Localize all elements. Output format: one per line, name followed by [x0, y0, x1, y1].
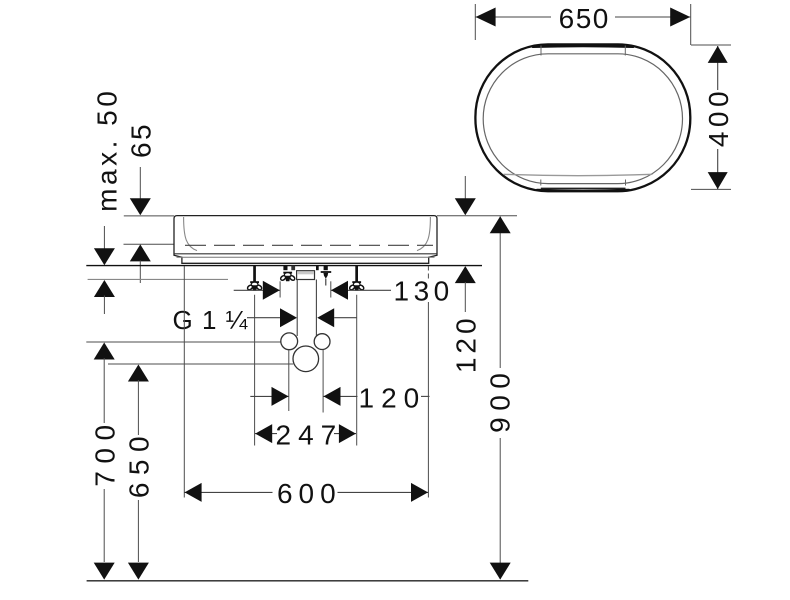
basin rim extension line right [437, 215, 517, 217]
left supply connection circle [281, 333, 298, 350]
right fixing bolt rod [355, 266, 358, 282]
basin inner bowl right corner [417, 217, 430, 251]
svg-text:400: 400 [703, 87, 734, 147]
basin bowl bottom edge line [174, 253, 437, 255]
basin inner bowl left corner [184, 217, 197, 251]
svg-text:247: 247 [276, 420, 344, 451]
rim bottom flat thick edge [537, 189, 629, 192]
deck bottom straight edge [541, 187, 626, 189]
svg-text:700: 700 [89, 417, 120, 486]
wall mounting line [86, 265, 482, 267]
drain mounting tab 2 [291, 266, 295, 271]
drain screw T-bar [321, 271, 332, 273]
dimension G 1 1/4 (drain thread) [172, 305, 357, 335]
supply centerline left [288, 350, 290, 411]
drain mounting tab 4 [324, 266, 328, 271]
oval washbasin inner rim line [483, 54, 682, 184]
left fixing bolt wing nut [247, 281, 263, 291]
svg-text:120: 120 [359, 382, 427, 413]
drain screw pin [325, 279, 327, 286]
drain pipe right edge [315, 280, 317, 337]
dimension 400 (plan view depth) [691, 45, 734, 189]
svg-text:600: 600 [277, 478, 342, 509]
svg-text:650: 650 [124, 429, 155, 498]
dimension 120 (supply spacing) [250, 382, 429, 413]
left fixing bolt extension line [254, 295, 256, 446]
svg-text:120: 120 [451, 314, 482, 373]
drain mounting tab 3 [316, 266, 319, 271]
rim flat-section tick right (top) [624, 46, 626, 56]
supply centerline right [322, 350, 324, 413]
siphon plate extension line left [279, 281, 281, 297]
dimension 120 vertical (rim to supply) [451, 176, 482, 373]
basin inner water line (dashed) [185, 244, 433, 246]
drain tailpiece flange [297, 271, 315, 280]
dimension 247 (bolt spacing) [255, 420, 356, 451]
dimension 900 (rim height) [485, 216, 516, 579]
drain wing nut [280, 272, 296, 282]
right fixing bolt wing nut [349, 281, 365, 291]
drain trap circle [293, 346, 319, 372]
drain screw body [323, 273, 328, 279]
floor line [87, 580, 529, 582]
dimension 650 (plan view width) [475, 3, 690, 45]
extension line 65 bottom [124, 243, 184, 245]
oval washbasin outer rim (plan view) [475, 44, 690, 191]
dimension max. 50 (wall clearance) [91, 88, 122, 314]
drain mounting tab 1 [283, 266, 287, 271]
wall line [88, 278, 228, 280]
dimension 700 (supply height) [89, 343, 120, 580]
supply line level [86, 341, 281, 343]
extension line 65 top [124, 215, 174, 217]
deck tick right (bottom) [625, 180, 627, 186]
trap level line [108, 363, 293, 365]
rim top flat thick edge [533, 44, 633, 48]
svg-text:650: 650 [559, 3, 610, 34]
drain pipe left edge [296, 280, 298, 337]
svg-text:900: 900 [485, 367, 516, 433]
right fixing bolt extension line [356, 295, 358, 446]
left fixing bolt rod [253, 266, 256, 282]
svg-text:130: 130 [394, 275, 454, 306]
svg-text:65: 65 [126, 122, 157, 158]
deck tick left (bottom) [540, 180, 542, 186]
dimension 65 (rim to fixing) [126, 122, 157, 283]
washbasin body (front view) [174, 216, 437, 264]
right supply connection circle [314, 334, 330, 350]
rim flat-section tick left (top) [540, 46, 542, 56]
svg-text:max. 50: max. 50 [91, 88, 122, 212]
basin apron top line [177, 256, 435, 258]
basin deck front edge (plan view) [504, 174, 653, 175]
dimension 650 vertical (trap height) [124, 365, 155, 580]
dimension 130 [234, 275, 454, 306]
siphon plate extension line right [330, 281, 332, 297]
dimension 600 (basin width) [184, 266, 428, 509]
